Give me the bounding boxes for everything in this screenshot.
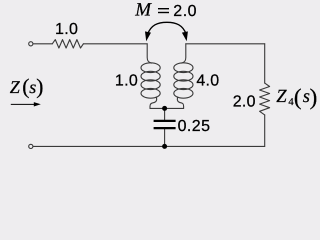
- inductor L2 loop 2: [174, 71, 193, 81]
- svg-text:Z: Z: [276, 87, 287, 107]
- svg-text:0.25: 0.25: [178, 118, 211, 135]
- svg-text:s: s: [29, 77, 36, 97]
- inductor L2 entry: [182, 44, 186, 63]
- svg-text:): ): [310, 85, 318, 110]
- wire capacitor to bottom rail: [164, 129, 166, 146]
- inductor L2 exit: [177, 97, 183, 109]
- resistor R1 zigzag: [52, 40, 83, 48]
- arrowhead left of M arc: [145, 31, 151, 41]
- svg-text:4.0: 4.0: [196, 73, 219, 90]
- node A junction dot: [162, 106, 167, 111]
- wire coil-bottom bar: [150, 107, 184, 109]
- wire top-left segment: [33, 43, 52, 45]
- inductor L1 entry: [147, 44, 151, 63]
- inductor L1 exit: [150, 97, 157, 109]
- wire right rail upper: [264, 44, 266, 83]
- wire node to capacitor: [164, 108, 166, 119]
- arrowhead of Z(s) arrow: [34, 102, 41, 106]
- svg-text:2.0: 2.0: [233, 93, 256, 110]
- mutual coupling arc M: [148, 22, 187, 34]
- label = sign bar 2: [158, 12, 169, 13]
- arrowhead right of M arc: [182, 31, 188, 41]
- inductor L2 loop 4: [174, 88, 193, 98]
- wire right rail lower: [264, 115, 266, 146]
- inductor L1 loop 2: [141, 71, 160, 81]
- wire top-middle segment: [83, 43, 147, 45]
- capacitor C1 plates: [154, 121, 176, 128]
- svg-text:1.0: 1.0: [115, 73, 138, 90]
- resistor R2 zigzag: [260, 83, 270, 115]
- wire top-right segment: [186, 43, 265, 45]
- svg-text:Z: Z: [10, 77, 21, 97]
- svg-text:1.0: 1.0: [55, 21, 78, 38]
- svg-text:(: (: [294, 85, 302, 110]
- label = sign bar 1: [158, 8, 169, 9]
- impedance arrow Z(s): [11, 103, 35, 105]
- label Z(s): [10, 75, 44, 99]
- svg-text:2.0: 2.0: [173, 3, 197, 20]
- svg-text:M: M: [134, 0, 152, 21]
- inductor L1 loop 3: [141, 80, 160, 90]
- terminal top-left: [29, 42, 33, 46]
- label Z4(s): [276, 85, 317, 110]
- inductor L1 loop 1: [141, 63, 160, 73]
- inductor L2 loop 3: [174, 80, 193, 90]
- node B junction dot: [162, 144, 167, 149]
- terminal bottom-left: [29, 144, 33, 148]
- wire bottom rail: [33, 145, 264, 147]
- inductor L1 loop 4: [141, 88, 160, 98]
- svg-text:): ): [36, 75, 43, 99]
- inductor L2 loop 1: [174, 63, 193, 73]
